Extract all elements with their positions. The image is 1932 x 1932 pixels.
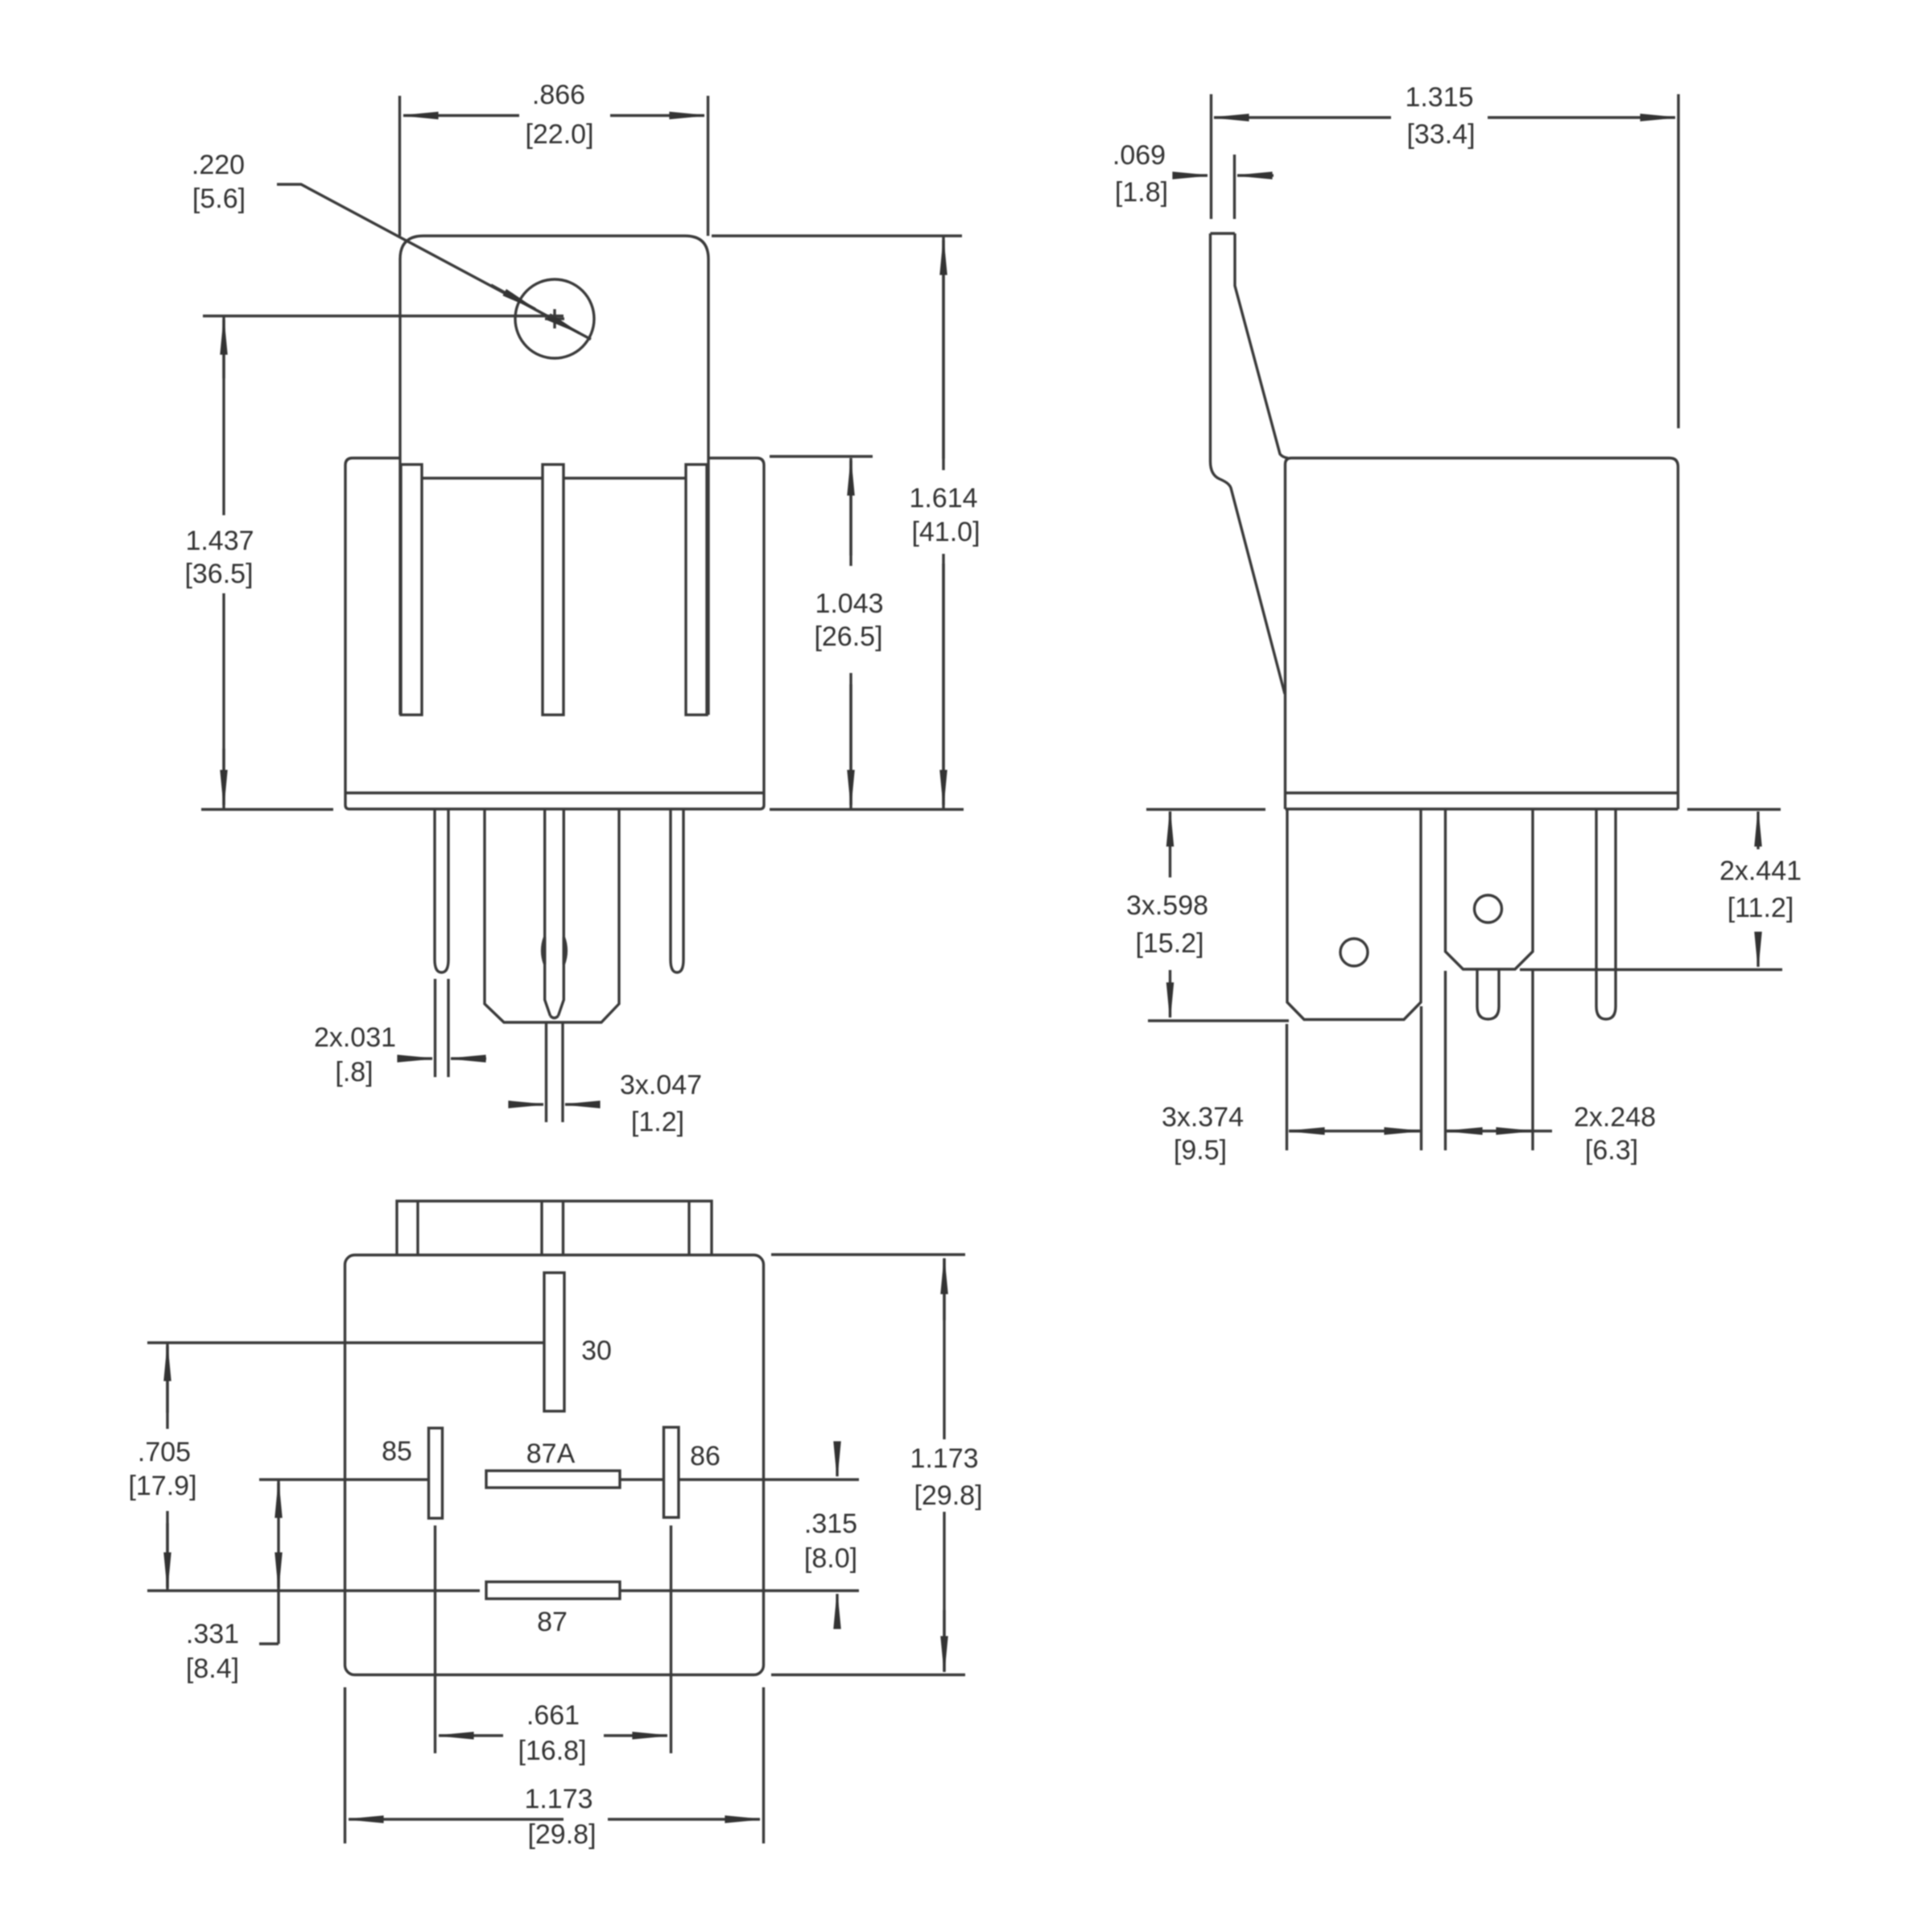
- dim .315 arrows: [836, 1443, 838, 1476]
- blade pin 30 front: [485, 809, 619, 1022]
- svg-text:2x.248: 2x.248: [1574, 1102, 1656, 1133]
- svg-text:1.614: 1.614: [909, 483, 977, 514]
- dim 2x.031 ext lines: [436, 979, 449, 1077]
- svg-text:[8.0]: [8.0]: [804, 1543, 857, 1574]
- dim 2x.031 arrows: [398, 1057, 432, 1059]
- svg-text:2x.441: 2x.441: [1719, 856, 1802, 886]
- svg-text:[.8]: [.8]: [335, 1057, 373, 1088]
- hole extension line: [203, 315, 563, 317]
- svg-text:1.173: 1.173: [910, 1443, 978, 1474]
- coil pin below small blade: [1477, 969, 1499, 1019]
- dim 1.043 ext line: [770, 455, 873, 457]
- svg-text:2x.031: 2x.031: [314, 1022, 396, 1053]
- svg-text:[6.3]: [6.3]: [1585, 1135, 1638, 1166]
- dim 3x.374 ext lines: [1287, 1006, 1422, 1150]
- dim .866 arrows: [403, 114, 519, 117]
- dim 1.173 horizontal arrows: [349, 1818, 563, 1820]
- dim 3x.374 line: [1289, 1129, 1420, 1132]
- dim .069 arrows: [1182, 174, 1207, 176]
- collar slot ticks: [418, 1201, 689, 1255]
- dim 1.173 vertical ext lines: [771, 1255, 965, 1675]
- dim .705 line: [166, 1343, 168, 1591]
- svg-text:.315: .315: [804, 1509, 857, 1539]
- svg-text:.705: .705: [138, 1437, 191, 1468]
- svg-text:[33.4]: [33.4]: [1406, 119, 1475, 150]
- svg-text:3x.374: 3x.374: [1162, 1102, 1244, 1133]
- svg-text:[9.5]: [9.5]: [1174, 1135, 1227, 1166]
- slot 87: [486, 1582, 620, 1599]
- svg-text:[29.8]: [29.8]: [914, 1480, 982, 1511]
- svg-text:[26.5]: [26.5]: [814, 621, 882, 652]
- svg-text:87: 87: [537, 1607, 568, 1637]
- svg-text:[36.5]: [36.5]: [184, 559, 253, 589]
- tab top ext line: [712, 234, 962, 237]
- center pin lance bulges: [543, 937, 567, 964]
- svg-text:86: 86: [690, 1441, 720, 1472]
- dim 1.437 line: [222, 316, 225, 810]
- body flange line front: [345, 791, 764, 794]
- dim 3x.598 ext lines: [1146, 810, 1289, 1022]
- dim 2x.248 line: [1447, 1129, 1552, 1132]
- mounting hole: [515, 279, 594, 358]
- dim 2x.441 ext lines: [1520, 810, 1782, 970]
- dim 1.173 horizontal ext lines: [345, 1687, 764, 1843]
- thin pin right side: [1596, 809, 1616, 1019]
- tab slot right: [686, 464, 707, 715]
- dim .661 arrows: [439, 1734, 503, 1736]
- svg-text:30: 30: [581, 1335, 612, 1366]
- dim 3x.047 ext lines: [547, 1022, 563, 1122]
- dim 1.173 vertical line: [943, 1258, 945, 1672]
- coil pin left front: [435, 809, 448, 972]
- dim 1.614 line: [942, 236, 944, 809]
- blade hole left: [1340, 939, 1368, 966]
- svg-text:1.173: 1.173: [524, 1784, 592, 1814]
- svg-text:.331: .331: [186, 1619, 239, 1649]
- svg-text:1.315: 1.315: [1405, 82, 1473, 113]
- svg-text:[41.0]: [41.0]: [911, 517, 980, 547]
- svg-text:.866: .866: [532, 80, 585, 110]
- bracket side top: [1211, 232, 1236, 234]
- dim 3x.598 line: [1169, 811, 1171, 877]
- svg-text:.069: .069: [1113, 140, 1166, 171]
- svg-text:[15.2]: [15.2]: [1135, 928, 1203, 959]
- slot 87A: [486, 1471, 620, 1488]
- svg-text:85: 85: [382, 1436, 412, 1467]
- leader .220 arrowheads: [491, 285, 535, 309]
- svg-text:[1.8]: [1.8]: [1115, 177, 1168, 208]
- hole center cross: [545, 309, 564, 328]
- dim 2x.248 ext lines: [1446, 971, 1534, 1150]
- dim 1.043 line: [849, 458, 852, 809]
- bracket side profile left: [1211, 233, 1286, 694]
- bracket side profile right: [1235, 233, 1288, 458]
- dim .661 ext lines: [436, 1525, 671, 1753]
- leader .220: [277, 184, 591, 340]
- slot 30: [544, 1273, 564, 1411]
- body flange line side: [1286, 791, 1678, 794]
- dim .331 line: [259, 1480, 279, 1644]
- body bottom edge side: [1286, 807, 1678, 810]
- svg-text:[5.6]: [5.6]: [192, 184, 246, 214]
- blade terminal small side: [1446, 809, 1534, 969]
- dim .866 ext lines: [400, 96, 708, 236]
- svg-text:3x.598: 3x.598: [1126, 890, 1208, 921]
- svg-text:1.043: 1.043: [815, 588, 883, 619]
- coil pin right front: [671, 809, 683, 972]
- collar outline bottom: [397, 1201, 712, 1255]
- svg-text:.661: .661: [526, 1700, 580, 1731]
- svg-text:[1.2]: [1.2]: [631, 1107, 684, 1137]
- svg-text:3x.047: 3x.047: [620, 1070, 702, 1100]
- svg-text:[17.9]: [17.9]: [128, 1471, 196, 1501]
- svg-text:1.437: 1.437: [185, 526, 254, 556]
- svg-text:.220: .220: [192, 150, 245, 180]
- tab slot middle: [543, 464, 563, 715]
- bottom right ext line: [770, 808, 964, 811]
- mounting tab outline: [400, 236, 708, 715]
- relay body outline side: [1286, 458, 1678, 809]
- dim 1.315 ext lines: [1212, 94, 1679, 428]
- tab slot left: [401, 464, 422, 715]
- slot 86: [664, 1427, 679, 1517]
- centerline pin 30: [147, 1341, 544, 1344]
- center pin front: [545, 809, 564, 1018]
- dim .069 ext line: [1233, 155, 1236, 219]
- dim 1.315 arrows: [1214, 116, 1391, 118]
- svg-text:[16.8]: [16.8]: [518, 1736, 586, 1766]
- relay body outline bottom: [345, 1255, 764, 1675]
- slot 85: [429, 1428, 443, 1518]
- centerline pins 85 86 87A: [259, 1478, 859, 1480]
- svg-text:87A: 87A: [526, 1439, 576, 1469]
- svg-text:[11.2]: [11.2]: [1728, 893, 1794, 923]
- collar line between slots: [422, 477, 686, 479]
- svg-text:[8.4]: [8.4]: [186, 1653, 239, 1684]
- centerline pin 87: [147, 1589, 859, 1591]
- blade terminal large side: [1287, 809, 1421, 1020]
- dim 2x.441 line: [1757, 811, 1759, 849]
- relay body outline front: [345, 458, 764, 809]
- bottom left ext line: [201, 808, 333, 811]
- dim 3x.047 arrows: [510, 1103, 543, 1105]
- svg-text:[22.0]: [22.0]: [525, 119, 593, 150]
- blade hole right: [1475, 895, 1502, 923]
- svg-text:[29.8]: [29.8]: [527, 1819, 596, 1850]
